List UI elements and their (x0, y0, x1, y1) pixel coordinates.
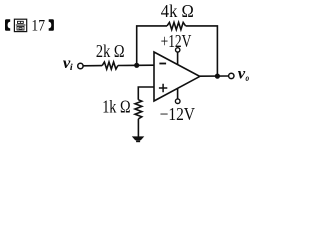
svg-text:4k Ω: 4k Ω (161, 1, 194, 21)
svg-text:i: i (70, 63, 73, 73)
wire feedback right (across and down to output node) (186, 26, 218, 76)
input terminal vi (open circle) (78, 63, 83, 68)
op-amp V+ supply pin stub (177, 52, 179, 65)
svg-text:+12V: +12V (161, 31, 192, 51)
op-amp inverting input marker − (159, 63, 166, 65)
op-amp V+ supply terminal circle (176, 48, 180, 52)
figure caption glyph 圖 (14, 19, 26, 31)
output terminal vo (open circle) (229, 73, 234, 78)
op-amp non-inverting input marker + (159, 84, 167, 92)
svg-text:2k Ω: 2k Ω (96, 41, 125, 61)
op-amp V− supply pin stub (177, 89, 179, 100)
label v_o (238, 66, 249, 84)
junction node at output (215, 74, 220, 79)
wire non-inverting input to resistor 1k (138, 87, 154, 100)
resistor 4kΩ (feedback) (167, 22, 186, 29)
svg-text:17: 17 (31, 18, 45, 35)
figure caption bracket 【 (5, 19, 10, 31)
svg-text:−12V: −12V (160, 104, 195, 124)
svg-text:o: o (246, 74, 250, 84)
wire vi terminal to resistor 2k (83, 65, 102, 67)
wire resistor 1k to ground (137, 119, 139, 137)
junction node at inverting input (134, 63, 139, 68)
resistor 2kΩ (102, 62, 118, 69)
op-amp U1 triangle (154, 52, 200, 101)
ground (132, 136, 145, 142)
wire op-amp output to vo terminal (200, 75, 229, 77)
svg-text:1k Ω: 1k Ω (102, 97, 130, 117)
label v_i (63, 55, 73, 73)
op-amp V− supply terminal circle (175, 99, 180, 104)
wire resistor 2k to inverting input node (118, 64, 154, 66)
figure caption bracket 】 (49, 19, 54, 31)
resistor 1kΩ (135, 100, 142, 119)
wire feedback left (up from node, across to 4k) (137, 26, 167, 65)
